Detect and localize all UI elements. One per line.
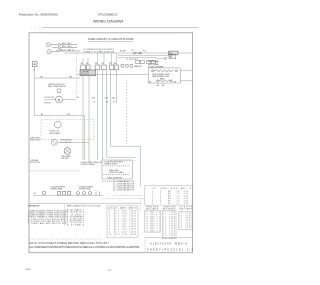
control board box: [102, 160, 132, 179]
svg-text:RLY: RLY: [170, 57, 173, 59]
wire mid run: [77, 74, 149, 76]
motor wires: [44, 99, 56, 101]
svg-text:Y-8: Y-8: [106, 102, 108, 104]
svg-text:75 1080: 75 1080: [163, 221, 175, 223]
svg-text:316271609 REV-A: 316271609 REV-A: [150, 242, 187, 246]
wire left vertical: [34, 67, 36, 116]
wire dashed left drop: [75, 54, 77, 96]
svg-text:Publication No. 5995434205: Publication No. 5995434205: [19, 13, 58, 17]
svg-text:75 1080 2.1: 75 1080 2.1: [146, 228, 160, 230]
svg-text:4 12.5 240 3000: 4 12.5 240 3000: [109, 218, 136, 220]
svg-text:P-12: P-12: [143, 51, 146, 53]
dotted leader line: [113, 195, 143, 197]
svg-text:5 12.5 240 3000: 5 12.5 240 3000: [109, 221, 136, 223]
legend separator: [64, 204, 66, 226]
svg-text:75 1080: 75 1080: [163, 223, 175, 225]
table wire code: [145, 186, 193, 205]
ground marks below element box: [157, 83, 164, 86]
svg-text:H. GY-GRAY-8: H. GY-GRAY-8: [67, 223, 84, 226]
svg-text:75 1080: 75 1080: [163, 214, 175, 216]
svg-text:MOTOR 120V: MOTOR 120V: [30, 162, 41, 164]
svg-text:E202: E202: [26, 269, 32, 271]
svg-text:75 1080: 75 1080: [163, 226, 175, 228]
svg-text:REL: REL: [169, 53, 173, 55]
svg-text:75 1080: 75 1080: [180, 218, 192, 220]
wire relay drop 1: [102, 70, 104, 160]
door lock cam switch: [57, 89, 61, 93]
wire risers to bus: [83, 53, 116, 65]
connector block J2: [80, 70, 96, 76]
bake element: [157, 80, 173, 82]
wire vertical x84: [83, 116, 85, 160]
wire lamp connect: [57, 141, 89, 143]
svg-text:75 1080: 75 1080: [163, 235, 175, 237]
svg-text:75 1080: 75 1080: [180, 213, 192, 215]
wire element stub bottom: [180, 80, 192, 82]
svg-text:BROIL ELEMENT 3400W: BROIL ELEMENT 3400W: [152, 74, 170, 76]
svg-text:75 1080 2.1: 75 1080 2.1: [146, 214, 160, 216]
svg-text:OR-6: OR-6: [92, 97, 96, 99]
schematic border frame: [29, 33, 193, 253]
svg-text:75 1080: 75 1080: [180, 227, 192, 229]
wire bus 2: [118, 54, 169, 56]
svg-text:75 1080: 75 1080: [163, 230, 175, 232]
svg-text:7 12.5 240 3000: 7 12.5 240 3000: [109, 226, 136, 228]
pin row 1: [104, 165, 130, 167]
wire magenta bottom run: [111, 160, 137, 162]
svg-text:DOOR LOCK: DOOR LOCK: [45, 97, 56, 99]
table circuit chart: [107, 206, 138, 238]
svg-text:OR-6: OR-6: [105, 97, 109, 99]
svg-text:6 12.5 240 3000: 6 12.5 240 3000: [109, 224, 136, 226]
svg-text:L1 TOD CLK N: L1 TOD CLK N: [127, 59, 138, 61]
svg-text:ESEC TOUCH PNL: ESEC TOUCH PNL: [108, 177, 123, 179]
wire lock run: [35, 115, 85, 117]
svg-text:3 4 BK 20 240: 3 4 BK 20 240: [152, 196, 188, 198]
svg-text:4 5 BK 20 240: 4 5 BK 20 240: [152, 198, 188, 200]
svg-text:(LOWER OVEN): (LOWER OVEN): [79, 189, 91, 191]
svg-text:CONTROL BOARD: CONTROL BOARD: [109, 171, 124, 174]
svg-text:75 1080: 75 1080: [163, 237, 175, 239]
contact circle: [165, 57, 167, 59]
junction box on top run: [169, 51, 179, 55]
svg-text:DOUBLE OVEN POWER: DOUBLE OVEN POWER: [105, 162, 124, 164]
svg-text:75 1080: 75 1080: [163, 219, 175, 221]
svg-text:75 1080: 75 1080: [163, 228, 175, 230]
divider line: [29, 202, 141, 204]
svg-text:2 12.5 240 3000: 2 12.5 240 3000: [109, 213, 136, 215]
svg-text:OVEN LIGHT: OVEN LIGHT: [30, 137, 40, 139]
svg-text:9 12.5 240 3000: 9 12.5 240 3000: [109, 231, 136, 233]
wire element stub top: [180, 70, 192, 72]
svg-text:75 1080 2.1: 75 1080 2.1: [146, 223, 160, 225]
notes dashed line: [30, 238, 104, 240]
svg-text:75 1080: 75 1080: [163, 216, 175, 218]
lock switch circle: [54, 121, 61, 128]
svg-text:75 1080 2.1: 75 1080 2.1: [146, 226, 160, 228]
svg-text:COMPONENT CODE: COMPONENT CODE: [28, 206, 40, 208]
svg-text:DOUBLE ELEMENT: DOUBLE ELEMENT: [79, 187, 94, 189]
svg-text:40W 120V: 40W 120V: [61, 158, 69, 160]
svg-text:6 7 BK 20 240: 6 7 BK 20 240: [152, 203, 188, 205]
door lock motor M: [56, 96, 63, 103]
table small 2: [163, 210, 176, 238]
svg-text:7. OVEN LAMP AND SWITCH 40W: 7. OVEN LAMP AND SWITCH 40W: [28, 222, 67, 225]
svg-text:BK: BK: [149, 81, 151, 83]
svg-text:BK-1 BK-2: BK-1 BK-2: [62, 43, 72, 45]
svg-text:HI-LIMIT: HI-LIMIT: [120, 51, 126, 53]
svg-text:W-R: W-R: [173, 81, 176, 83]
svg-text:DLB: DLB: [170, 55, 173, 57]
relay contacts row 2: [121, 65, 133, 68]
svg-text:MOTOR: MOTOR: [45, 103, 52, 105]
dashed horizontal: [102, 198, 144, 200]
wire magenta stubs: [31, 27, 43, 29]
svg-text:75 1080: 75 1080: [180, 220, 192, 222]
svg-text:AND LOWER SWITCH: AND LOWER SWITCH: [48, 85, 66, 88]
svg-text:Y-8: Y-8: [113, 102, 115, 104]
svg-text:10 12.5 240 3000: 10 12.5 240 3000: [109, 234, 136, 236]
svg-text:3 12.5 240 3000: 3 12.5 240 3000: [109, 216, 136, 218]
relay K1: [169, 54, 176, 59]
wire top bus L1: [42, 27, 199, 29]
wire bus 3: [156, 57, 165, 59]
svg-text:NOTE: DISCONNECT POWER BEFORE: NOTE: DISCONNECT POWER BEFORE SERVICING …: [29, 242, 109, 245]
svg-text:75 1080 2.1: 75 1080 2.1: [146, 221, 160, 223]
svg-text:WIRING DIAGRAM: WIRING DIAGRAM: [93, 19, 123, 23]
svg-text:14. CONV FAN MOTOR: 14. CONV FAN MOTOR: [113, 189, 135, 192]
plug P1: [32, 62, 37, 67]
table small 1: [145, 210, 161, 232]
wire branch y78: [35, 77, 80, 79]
svg-text:8 12.5 240 3000: 8 12.5 240 3000: [109, 229, 136, 231]
wire relay drop 3: [111, 70, 141, 186]
svg-text:MOTOR J2: MOTOR J2: [81, 74, 89, 76]
svg-text:SWITCH 120V: SWITCH 120V: [30, 140, 41, 142]
svg-text:BK: BK: [77, 97, 79, 99]
svg-text:1 12.5 240 3000: 1 12.5 240 3000: [109, 210, 136, 212]
bottom component row: [33, 194, 104, 196]
svg-text:DOUBLE ELEMENT: DOUBLE ELEMENT: [51, 187, 66, 189]
svg-text:UPPER OVEN: UPPER OVEN: [146, 206, 159, 208]
svg-text:75 1080: 75 1080: [180, 215, 192, 217]
svg-text:75 1080: 75 1080: [163, 233, 175, 235]
wire verticals from switches: [83, 70, 116, 162]
dashed separator: [30, 170, 81, 172]
svg-text:SENSOR: SENSOR: [180, 206, 193, 208]
svg-text:75 1080 2.1: 75 1080 2.1: [146, 230, 160, 232]
svg-text:SHEET(PUZZLE)-1/2: SHEET(PUZZLE)-1/2: [147, 247, 194, 251]
table small 3: [179, 212, 193, 230]
svg-text:3AC-2 2 3AC L2: 3AC-2 2 3AC L2: [60, 49, 75, 52]
svg-text:OVEN CIRCUIT (1) CIRCUIT IN FO: OVEN CIRCUIT (1) CIRCUIT IN FOUR: [88, 37, 134, 41]
wire magenta drop: [125, 80, 127, 146]
svg-text:WIRE CONNECTION TO COLOR CODE: WIRE CONNECTION TO COLOR CODE: [67, 205, 101, 207]
broil element: [152, 70, 178, 72]
svg-text:5 6 BK 20 240: 5 6 BK 20 240: [152, 201, 188, 203]
node L1 terminal: [46, 43, 80, 54]
svg-text:ALL COMPONENTS SHOWN WITH OVEN: ALL COMPONENTS SHOWN WITH OVEN DOOR CLOS…: [29, 246, 139, 249]
svg-text:75 1080 2.1: 75 1080 2.1: [146, 216, 160, 218]
pin row 2: [104, 173, 130, 175]
svg-text:Y-8: Y-8: [93, 102, 95, 104]
svg-text:OR-6: OR-6: [112, 97, 116, 99]
fuse on top run: [134, 52, 142, 54]
pin row 3: [103, 180, 130, 182]
wire magenta dots right border: [192, 33, 194, 250]
svg-text:LIGHT SWITCH: LIGHT SWITCH: [61, 140, 73, 142]
switch boxes row: [81, 65, 119, 70]
oven lamp: [64, 148, 71, 155]
svg-text:2 3 BK 20 240: 2 3 BK 20 240: [152, 193, 188, 195]
oven element enclosure: [149, 68, 181, 83]
svg-text:1 2 BK 20 240: 1 2 BK 20 240: [152, 191, 188, 193]
wire bus 4: [118, 57, 156, 59]
svg-text:75 1080: 75 1080: [163, 212, 175, 214]
wire relay drop 2: [107, 70, 137, 158]
wire main top run: [64, 52, 193, 54]
svg-text:75 1080 2.1: 75 1080 2.1: [146, 212, 160, 214]
svg-text:75 1080 2.1: 75 1080 2.1: [146, 219, 160, 221]
rev box: [145, 236, 193, 238]
wire magenta overlay on top border: [40, 32, 192, 34]
svg-text:LOWER OVEN: LOWER OVEN: [163, 206, 176, 208]
wire dashed stub: [140, 198, 142, 212]
svg-text:DOOR LOCK: DOOR LOCK: [50, 131, 61, 133]
oven light switch circle: [51, 139, 57, 145]
svg-text:BK-1 BK-4: BK-1 BK-4: [62, 46, 72, 48]
svg-text:(UPPER OVEN): (UPPER OVEN): [51, 189, 63, 191]
relay contacts row: [136, 60, 155, 63]
svg-text:75 1080: 75 1080: [180, 225, 192, 227]
door lock assembly dashed box: [41, 120, 94, 139]
svg-text:75 1080: 75 1080: [180, 222, 192, 224]
svg-text:CPCS389EC3: CPCS389EC3: [98, 13, 118, 17]
